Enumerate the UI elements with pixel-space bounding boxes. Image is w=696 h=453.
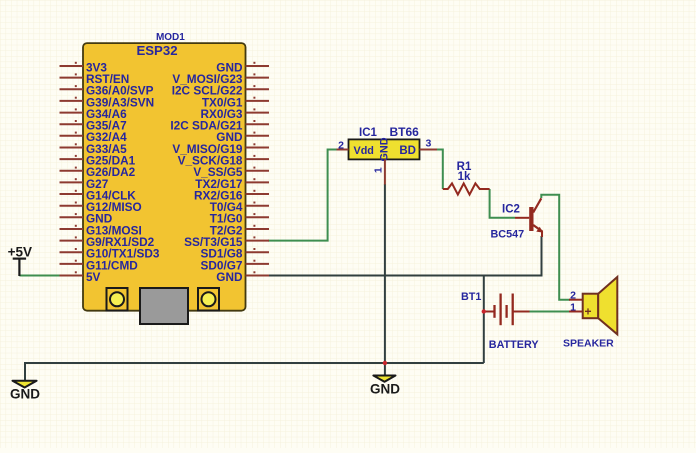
pin 3V3 (left 1) — [60, 60, 108, 74]
USB connector — [140, 288, 188, 324]
pin V_SS/G5 (right 10) — [193, 165, 269, 179]
wire ESP32 GND pin to IC2 emitter (GND net) — [268, 236, 542, 276]
pin GND (right 19) — [216, 270, 269, 284]
svg-text:+: + — [584, 305, 591, 319]
pin G13/MOSI (left 15) — [60, 223, 142, 237]
svg-text:1: 1 — [373, 167, 385, 173]
pin RST/EN (left 2) — [60, 72, 130, 86]
svg-text:2: 2 — [338, 140, 344, 152]
IC1 pin 1 stub — [373, 159, 385, 184]
junction battery-gnd — [482, 309, 486, 313]
pin SD1/G8 (right 17) — [201, 247, 269, 261]
svg-text:IC2: IC2 — [502, 204, 520, 216]
label +5V — [8, 245, 32, 260]
label IC1 — [359, 127, 378, 139]
pin V_MISO/G19 (right 8) — [172, 142, 269, 156]
resistor R1 — [443, 183, 490, 194]
svg-text:+5V: +5V — [8, 245, 32, 260]
svg-text:BATTERY: BATTERY — [489, 339, 540, 351]
module MOD1 ESP32 body — [83, 43, 246, 311]
speaker LS1 — [569, 277, 617, 334]
wire IC2 collector to speaker pin 2 — [541, 195, 570, 300]
svg-text:GND: GND — [10, 386, 40, 401]
+5V power symbol — [13, 259, 26, 276]
svg-text:BC547: BC547 — [491, 229, 525, 241]
speaker pin number 2 — [570, 290, 576, 302]
wire +5V to ESP32 5V pin — [19, 275, 60, 277]
pin G10/TX1/SD3 (left 17) — [60, 247, 160, 261]
pin V_MOSI/G23 (right 2) — [172, 72, 269, 86]
speaker pin number 1 — [570, 302, 576, 314]
pin G39/A3/SVN (left 4) — [60, 95, 155, 109]
pin GND (left 14) — [60, 212, 113, 226]
svg-text:Vdd: Vdd — [354, 145, 374, 157]
junction gnd bus — [383, 361, 387, 365]
transistor IC2 BC547 — [515, 198, 543, 237]
pin T1/G0 (right 14) — [210, 212, 269, 226]
pin T0/G4 (right 13) — [210, 200, 269, 214]
svg-text:5V: 5V — [86, 270, 101, 284]
pin G12/MISO (left 13) — [60, 200, 142, 214]
pin V_SCK/G18 (right 9) — [178, 154, 269, 168]
svg-text:BT1: BT1 — [461, 291, 481, 303]
pin G33/A5 (left 8) — [60, 142, 128, 156]
label SPEAKER — [563, 337, 614, 349]
pin RX2/G16 (right 12) — [194, 188, 269, 202]
label 1k — [458, 171, 471, 183]
label IC2 — [502, 204, 520, 216]
IC1 pin 2 stub — [337, 140, 349, 152]
label MOD1 — [156, 32, 185, 43]
pin G35/A7 (left 6) — [60, 119, 128, 133]
svg-text:BT66: BT66 — [390, 125, 420, 139]
IC1 pin BD label — [399, 145, 416, 157]
wire IC1 pin1 GND drop — [384, 184, 386, 363]
pin 5V (left 19) — [60, 270, 101, 284]
pin G11/CMD (left 18) — [60, 258, 139, 272]
label BATTERY — [489, 339, 540, 351]
pin T2/G2 (right 15) — [210, 223, 269, 237]
svg-text:MOD1: MOD1 — [156, 32, 185, 43]
label BT1 — [461, 291, 481, 303]
label BC547 — [491, 229, 525, 241]
svg-text:1: 1 — [570, 302, 576, 314]
pin I2C SDA/G21 (right 6) — [170, 119, 269, 133]
wire ground bus — [25, 363, 484, 381]
pin G14/CLK (left 12) — [60, 188, 137, 202]
battery BT1 — [484, 294, 530, 326]
svg-text:1k: 1k — [458, 171, 471, 183]
pin RX0/G3 (right 5) — [201, 107, 269, 121]
svg-text:GND: GND — [216, 270, 243, 284]
pin TX2/G17 (right 11) — [195, 177, 269, 191]
svg-text:GND: GND — [378, 137, 390, 161]
wire middle GND symbol drop — [384, 363, 386, 376]
mounting hole right — [198, 288, 219, 311]
pin G32/A4 (left 7) — [60, 130, 128, 144]
svg-text:3: 3 — [425, 138, 431, 150]
wire ESP32 SS/T3/G15 to IC1 pin2 — [268, 150, 338, 241]
ground symbol left — [13, 381, 37, 388]
IC1 pin 3 stub — [420, 138, 438, 150]
IC1 pin GND label (rotated) — [378, 137, 390, 161]
pin G36/A0/SVP (left 3) — [60, 84, 154, 98]
wire battery branch down to ground bus — [483, 276, 485, 364]
pin I2C SCL/G22 (right 3) — [172, 84, 269, 98]
label R1 — [457, 161, 472, 173]
IC1 pin Vdd label — [354, 145, 374, 157]
pin G26/DA2 (left 10) — [60, 165, 136, 179]
label BT66 — [390, 125, 420, 139]
pin GND (right 1) — [216, 60, 269, 74]
wire R1 to IC2 base — [490, 189, 515, 218]
wire IC1 pin3 to R1 — [436, 150, 443, 190]
pin G25/DA1 (left 9) — [60, 154, 136, 168]
mounting hole left — [107, 288, 128, 311]
label GND left — [10, 386, 40, 401]
IC U1: IC1 BT66 box — [349, 139, 420, 159]
pin TX0/G1 (right 4) — [202, 95, 269, 109]
pin SS/T3/G15 (right 16) — [184, 235, 269, 249]
svg-text:2: 2 — [570, 290, 576, 302]
pin GND (right 7) — [216, 130, 269, 144]
pin G34/A6 (left 5) — [60, 107, 128, 121]
label ESP32 — [136, 43, 177, 58]
label GND middle — [370, 381, 400, 396]
svg-text:BD: BD — [399, 145, 416, 157]
wire battery plus to speaker pin 1 — [529, 311, 570, 313]
pin SD0/G7 (right 18) — [201, 258, 269, 272]
ground symbol middle — [373, 376, 395, 382]
svg-text:GND: GND — [370, 381, 400, 396]
pin G9/RX1/SD2 (left 16) — [60, 235, 155, 249]
svg-text:SPEAKER: SPEAKER — [563, 337, 614, 349]
svg-text:IC1: IC1 — [359, 127, 378, 139]
pin G27 (left 11) — [60, 177, 109, 191]
svg-text:ESP32: ESP32 — [136, 43, 177, 58]
